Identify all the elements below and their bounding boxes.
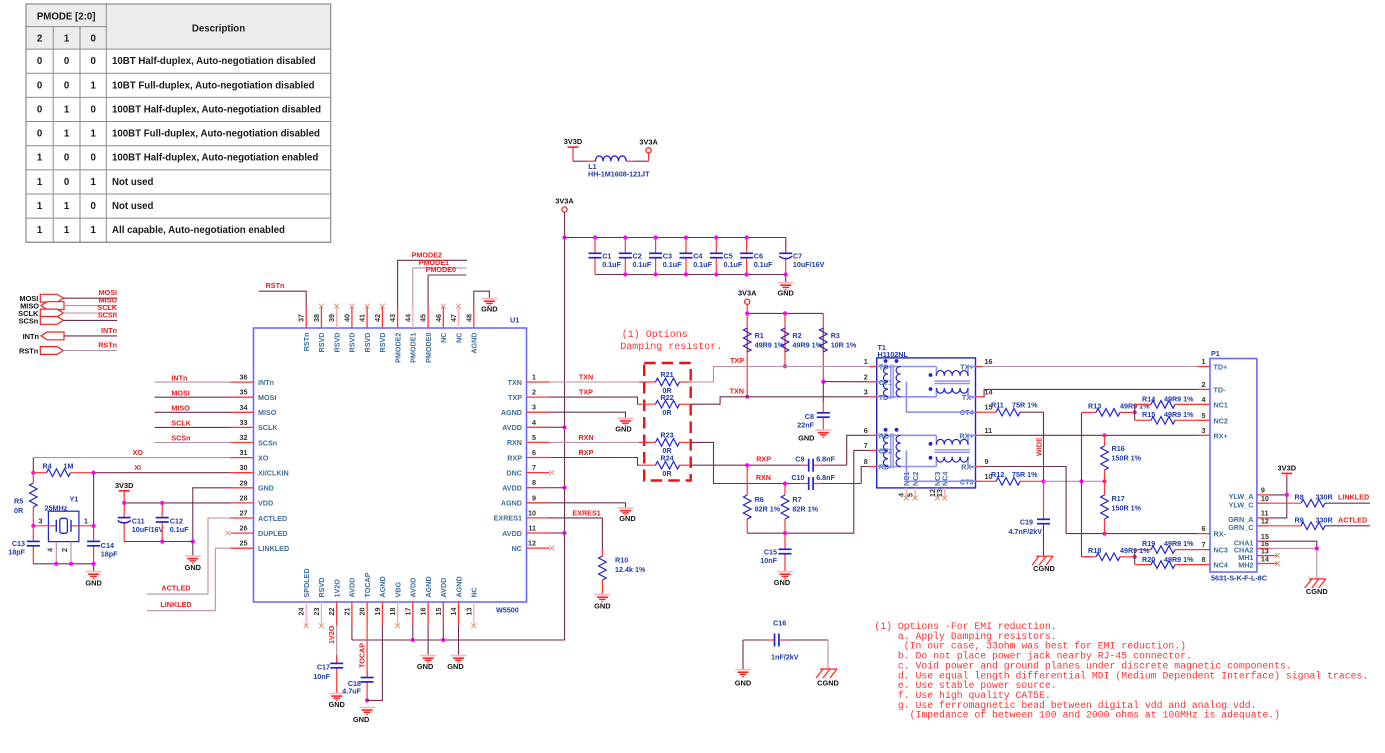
wire PMODE0: [428, 275, 466, 307]
P1 pin 15 CHA1: [1234, 532, 1269, 547]
svg-text:R7: R7: [792, 495, 801, 504]
svg-text:LINKLED: LINKLED: [1338, 493, 1369, 502]
wire P1 pin15 CHA1: [1269, 541, 1317, 548]
P1 pin 16 CHA2: [1234, 539, 1269, 554]
op-amp U1 W5500 body: [254, 316, 527, 615]
svg-text:14: 14: [985, 387, 993, 396]
resistor R22 0R: [639, 400, 691, 408]
wire net RX+ (T1 to P1): [983, 434, 1199, 436]
wire RSTn to U1 pin37: [259, 291, 307, 306]
junction GND/C11C12 bus: [191, 539, 195, 543]
ground (C17): [328, 694, 345, 709]
junction RXP/R6: [745, 463, 749, 467]
svg-text:1: 1: [90, 80, 96, 91]
svg-text:0: 0: [64, 153, 69, 164]
svg-text:DNC: DNC: [506, 468, 522, 477]
svg-text:150R 1%: 150R 1%: [1112, 503, 1142, 512]
resistor R23 0R: [639, 439, 691, 447]
U1 pin 24 SPDLED: [297, 568, 311, 628]
svg-text:0: 0: [64, 80, 69, 91]
svg-text:R23: R23: [660, 430, 673, 439]
svg-text:10: 10: [1261, 494, 1269, 503]
T1 pin 7 CT2: [864, 441, 893, 456]
wire net RXP (R24 to C9): [691, 464, 801, 466]
port MOSI: [19, 288, 117, 303]
svg-text:P1: P1: [1211, 349, 1220, 358]
junction C4 bottom: [684, 272, 688, 276]
U1 pin 29 GND: [231, 478, 274, 492]
resistor R4 1M: [33, 461, 93, 476]
svg-text:R18: R18: [1088, 546, 1101, 555]
U1 pin 26 DUPLED: [231, 524, 288, 538]
svg-text:0: 0: [90, 34, 95, 45]
svg-text:16: 16: [985, 357, 993, 366]
svg-text:R21: R21: [660, 370, 673, 379]
svg-text:AGND: AGND: [424, 576, 433, 597]
no-connect U1 pin26: [225, 531, 230, 536]
port MISO: [20, 296, 117, 311]
svg-text:(1) Options: (1) Options: [622, 329, 688, 341]
U1 pin 34 MISO: [231, 403, 277, 417]
junction C2 top: [623, 235, 627, 239]
svg-text:R2: R2: [792, 331, 801, 340]
svg-text:3V3D: 3V3D: [564, 137, 583, 146]
PMODE truth table: [26, 4, 331, 242]
wire U1 TXN to R21: [550, 381, 639, 383]
U1 pin 21 AVDD: [342, 578, 356, 626]
resistor R1 49R9 1%: [743, 313, 784, 396]
svg-text:NC: NC: [470, 587, 479, 597]
U1 pin 48 AGND: [464, 307, 478, 354]
svg-text:INTn: INTn: [258, 378, 274, 387]
svg-text:LINKLED: LINKLED: [258, 544, 289, 553]
svg-text:30: 30: [240, 463, 248, 472]
svg-text:TXN: TXN: [579, 373, 593, 382]
junction 3V3A rail: [562, 235, 566, 239]
svg-text:2: 2: [864, 372, 868, 381]
capacitor C13 18pF: [8, 526, 40, 564]
junction RX-/R17: [1102, 532, 1106, 536]
T1 pin 10 CT3: [960, 472, 993, 487]
svg-text:AGND: AGND: [501, 499, 522, 508]
svg-text:0.1uF: 0.1uF: [754, 260, 773, 269]
svg-text:GND: GND: [615, 424, 632, 433]
port SCLK: [18, 303, 118, 318]
U1 pin 32 SCSn: [231, 433, 278, 447]
wire net INTn to U1 pin 36: [155, 381, 231, 383]
wire net SCLK to U1 pin 33: [155, 426, 231, 428]
wire C10 to T1 RD-: [861, 467, 870, 484]
svg-text:CGND: CGND: [817, 679, 839, 688]
svg-text:10nF: 10nF: [760, 556, 777, 565]
svg-text:NC3: NC3: [1214, 546, 1228, 555]
svg-text:ACTLED: ACTLED: [161, 584, 190, 593]
svg-text:INTn: INTn: [171, 373, 187, 382]
svg-text:10: 10: [528, 508, 536, 517]
svg-text:AGND: AGND: [470, 333, 479, 354]
svg-text:5631-S-K-F-L-8C: 5631-S-K-F-L-8C: [1211, 574, 1267, 583]
dashed option box (damping resistors): [644, 363, 691, 481]
svg-text:SCSn: SCSn: [19, 316, 39, 325]
svg-text:22: 22: [327, 608, 336, 616]
svg-text:TD+: TD+: [1214, 363, 1228, 372]
svg-text:R16: R16: [1112, 444, 1125, 453]
ground (crystal): [85, 572, 102, 588]
svg-text:XI: XI: [134, 463, 141, 472]
wire R3 to C8: [822, 382, 824, 402]
resistor R16 150R 1%: [1101, 435, 1142, 481]
svg-text:GND: GND: [798, 433, 815, 442]
U1 pin 7 DNC: [506, 463, 549, 477]
svg-text:Damping resistor.: Damping resistor.: [620, 341, 722, 353]
svg-text:R10: R10: [615, 556, 628, 565]
resistor R15 49R9 1%: [1135, 417, 1198, 425]
capacitor C16 1nF/2kV: [743, 634, 828, 647]
wire C9 to T1 RD+: [847, 435, 870, 465]
capacitor C8 22nF: [817, 402, 830, 430]
capacitor C12: [156, 503, 189, 542]
svg-text:W5500: W5500: [496, 606, 519, 615]
svg-text:C17: C17: [317, 662, 330, 671]
T1 pin 12 NC3: [928, 472, 942, 501]
svg-text:RXN: RXN: [578, 433, 593, 442]
T1 pin 14 TX-: [962, 387, 993, 402]
svg-text:RSVD: RSVD: [317, 578, 326, 598]
junction C7 bottom: [784, 272, 788, 276]
svg-text:20: 20: [358, 608, 367, 616]
junction 3V3A rail: [562, 425, 566, 429]
U1 pin 30 XI/CLKIN: [231, 463, 289, 477]
svg-text:0: 0: [37, 104, 42, 115]
svg-text:14: 14: [449, 608, 458, 616]
svg-text:TXP: TXP: [508, 393, 522, 402]
wire net MISO to U1 pin 34: [155, 411, 231, 413]
svg-text:SCLK: SCLK: [171, 419, 191, 428]
svg-text:SCSn: SCSn: [98, 310, 117, 319]
svg-text:HH-1M1608-121JT: HH-1M1608-121JT: [588, 169, 650, 178]
ground (U1 pin48): [481, 299, 498, 314]
svg-text:R4: R4: [43, 461, 52, 470]
svg-text:7: 7: [864, 441, 868, 450]
svg-text:SCLK: SCLK: [258, 423, 278, 432]
junction C2 bottom: [623, 272, 627, 276]
svg-text:R17: R17: [1112, 494, 1125, 503]
svg-text:NC4: NC4: [941, 472, 950, 486]
U1 pin 15 AVDD: [434, 578, 448, 626]
junction C15/R7: [783, 531, 787, 535]
P1 pin 8 NC4: [1198, 555, 1228, 570]
svg-text:AVDD: AVDD: [502, 484, 522, 493]
svg-text:3V3A: 3V3A: [639, 137, 658, 146]
svg-text:0.1uF: 0.1uF: [170, 525, 189, 534]
svg-text:330R: 330R: [1316, 493, 1334, 502]
svg-text:R11: R11: [991, 401, 1004, 410]
svg-text:6.8nF: 6.8nF: [816, 455, 835, 464]
svg-text:C16: C16: [773, 619, 786, 628]
capacitor C17 10nF: [330, 655, 343, 693]
P1 pin 6 RX-: [1198, 524, 1226, 539]
port INTn: [23, 326, 118, 341]
svg-text:0: 0: [64, 56, 69, 67]
svg-text:12: 12: [1261, 517, 1269, 526]
wire PMODE1: [413, 268, 467, 307]
resistor R7 82R 1%: [781, 484, 818, 534]
svg-text:1M: 1M: [64, 461, 74, 470]
resistor R6 82R 1%: [743, 465, 780, 533]
T1 pin 15 CT4: [960, 403, 993, 418]
svg-text:MISO: MISO: [258, 408, 277, 417]
svg-text:48: 48: [464, 314, 473, 322]
junction crystal gnd bus: [92, 562, 96, 566]
junction C6 top: [745, 235, 749, 239]
svg-text:11: 11: [985, 426, 993, 435]
svg-text:GND: GND: [447, 662, 464, 671]
svg-text:17: 17: [403, 608, 412, 616]
svg-text:23: 23: [312, 608, 321, 616]
junction C5 bottom: [714, 272, 718, 276]
power 3V3D (P1): [1278, 463, 1297, 478]
svg-text:32: 32: [240, 433, 248, 442]
svg-text:46: 46: [434, 314, 443, 322]
svg-text:1: 1: [84, 517, 88, 526]
svg-text:TOCAP: TOCAP: [357, 643, 366, 668]
svg-text:82R 1%: 82R 1%: [792, 505, 818, 514]
svg-text:GND: GND: [735, 679, 752, 688]
svg-text:PMODE [2:0]: PMODE [2:0]: [37, 12, 96, 23]
svg-text:RXN: RXN: [756, 473, 771, 482]
U1 pin 14 AGND: [449, 576, 463, 625]
svg-text:GND: GND: [185, 563, 202, 572]
svg-text:12.4k 1%: 12.4k 1%: [615, 565, 646, 574]
svg-text:AVDD: AVDD: [439, 578, 448, 598]
wire net TXN (R22 to T1 TD-): [691, 397, 870, 404]
svg-text:RSVD: RSVD: [317, 333, 326, 353]
svg-text:49R9 1%: 49R9 1%: [755, 341, 785, 350]
capacitor C3 0.1uF: [649, 238, 682, 275]
resistor R17 150R 1%: [1101, 481, 1142, 533]
svg-text:100BT Half-duplex, Auto-negoti: 100BT Half-duplex, Auto-negotiation enab…: [112, 153, 318, 164]
ground (C15): [774, 572, 793, 587]
ground (R10): [594, 595, 611, 611]
T1 pin 16 TX+: [960, 357, 992, 372]
svg-text:DUPLED: DUPLED: [258, 529, 288, 538]
junction crystal gnd bus: [69, 562, 73, 566]
svg-text:GND: GND: [258, 484, 274, 493]
capacitor C15 10nF: [779, 533, 792, 571]
wire 1V2O to C17: [336, 626, 338, 664]
svg-text:GND: GND: [417, 662, 434, 671]
svg-text:MOSI: MOSI: [258, 393, 276, 402]
P1 pin 11 GRN_A: [1228, 509, 1269, 524]
U1 pin 27 ACTLED: [231, 509, 288, 523]
svg-text:TXP: TXP: [579, 388, 593, 397]
wire R19/R20 tie: [1134, 550, 1136, 565]
svg-text:8: 8: [1202, 555, 1206, 564]
svg-text:8: 8: [532, 478, 536, 487]
svg-text:TD-: TD-: [1214, 385, 1227, 394]
resistor R24 0R: [639, 461, 691, 469]
T1 pin 1 TD+: [864, 357, 893, 372]
resistor R14 49R9 1%: [1135, 401, 1198, 409]
svg-text:49R9 1%: 49R9 1%: [1164, 555, 1194, 564]
svg-text:0: 0: [90, 153, 95, 164]
P1 pin 7 NC3: [1198, 540, 1228, 555]
junction CT3 net: [1079, 479, 1083, 483]
svg-text:RSVD: RSVD: [333, 333, 342, 353]
port SCSn: [19, 310, 118, 325]
svg-text:150R 1%: 150R 1%: [1112, 453, 1142, 462]
svg-text:R3: R3: [831, 331, 840, 340]
junction 3V3A rail: [562, 486, 566, 490]
T1 pin 4 NC1: [897, 472, 911, 501]
wire Y1 pin1 rail: [93, 473, 95, 526]
ground (cap bank): [777, 283, 794, 298]
svg-text:All capable, Auto-negotiation: All capable, Auto-negotiation enabled: [112, 225, 285, 236]
svg-text:49R9 1%: 49R9 1%: [1164, 539, 1194, 548]
T1 pin 2 CT1: [864, 372, 893, 387]
svg-text:14: 14: [1261, 554, 1269, 563]
svg-text:100BT Full-duplex, Auto-negoti: 100BT Full-duplex, Auto-negotiation disa…: [112, 129, 320, 140]
ground (U1 pin14): [447, 656, 466, 671]
wire C16 left to GND: [742, 640, 744, 669]
U1 pin 37 RSTn: [297, 307, 311, 352]
chassis ground (CHA): [1305, 579, 1329, 596]
svg-text:1: 1: [37, 153, 43, 164]
wire net CT3 extension: [1044, 480, 1105, 482]
junction XI/C14 rail: [92, 471, 96, 475]
chassis ground (C16): [816, 669, 840, 688]
svg-text:R5: R5: [14, 497, 23, 506]
wire U1 pin9 AGND: [550, 503, 626, 508]
svg-text:1V2O: 1V2O: [327, 625, 336, 644]
wire PMODE2: [398, 260, 467, 306]
resistor R13 49R9 1%: [1082, 409, 1135, 417]
svg-text:RSTn: RSTn: [19, 347, 39, 356]
svg-text:INTn: INTn: [101, 326, 117, 335]
junction VDD bus: [122, 501, 126, 505]
P1 pin 4 NC1: [1198, 395, 1228, 410]
capacitor C10 6.8nF: [791, 473, 861, 490]
junction XI/R4/R5: [31, 471, 35, 475]
svg-text:PMODE2: PMODE2: [393, 333, 402, 363]
svg-text:21: 21: [342, 608, 351, 616]
svg-text:25MHz: 25MHz: [45, 503, 68, 512]
svg-text:3V3A: 3V3A: [555, 197, 574, 206]
svg-text:8: 8: [864, 457, 868, 466]
wire P1 pin9 to 3V3D rail: [1269, 494, 1287, 496]
svg-text:C9: C9: [795, 455, 804, 464]
note EMI reduction: [874, 621, 1368, 721]
svg-text:1: 1: [1202, 357, 1206, 366]
svg-text:44: 44: [403, 314, 412, 322]
svg-text:PMODE0: PMODE0: [424, 333, 433, 363]
svg-text:2: 2: [37, 34, 42, 45]
junction R2/TXP: [783, 364, 787, 368]
junction R3/CT1: [821, 380, 825, 384]
svg-text:100BT Half-duplex, Auto-negoti: 100BT Half-duplex, Auto-negotiation disa…: [112, 104, 321, 115]
svg-text:NC: NC: [454, 333, 463, 343]
svg-text:45: 45: [419, 314, 428, 322]
svg-text:R8: R8: [1295, 493, 1304, 502]
T1 pin 5 NC2: [906, 472, 920, 501]
svg-text:3: 3: [39, 517, 43, 526]
U1 pin 19 AGND: [373, 576, 387, 625]
svg-text:ACTLED: ACTLED: [258, 514, 287, 523]
U1 pin 1 TXN: [508, 373, 550, 387]
junction R1/TXN: [745, 395, 749, 399]
svg-text:1: 1: [64, 34, 70, 45]
capacitor C6 0.1uF: [740, 238, 773, 275]
ground (U1 pin16): [417, 656, 436, 671]
wire C11 C12 gnd bus: [124, 541, 193, 543]
svg-text:GND: GND: [85, 579, 102, 588]
wire net XI: [94, 472, 231, 474]
U1 pin 28 VDD: [231, 493, 274, 507]
U1 pin 5 RXN: [507, 433, 550, 447]
chassis ground (C19): [1032, 556, 1056, 573]
svg-text:RXN: RXN: [507, 438, 522, 447]
P1 pin 14 MH2: [1238, 554, 1280, 569]
junction C4 top: [684, 235, 688, 239]
svg-text:NC2: NC2: [911, 472, 920, 486]
transformer T1 RX winding: [877, 428, 976, 481]
T1 pin 6 RD+: [864, 426, 894, 441]
U1 pin 45 PMODE0: [419, 307, 433, 363]
T1 pin 3 TD-: [864, 387, 892, 402]
svg-text:0: 0: [90, 56, 95, 67]
capacitor C4 0.1uF: [680, 238, 713, 275]
U1 pin 13 NC: [464, 587, 478, 628]
svg-text:1: 1: [90, 129, 96, 140]
wire C16 right to CGND: [827, 640, 829, 669]
power 3V3A (R1-R3): [738, 289, 757, 305]
svg-text:RSTn: RSTn: [98, 341, 117, 350]
svg-text:AGND: AGND: [378, 576, 387, 597]
svg-text:RSVD: RSVD: [363, 333, 372, 353]
P1 pin 9 YLW_A: [1229, 486, 1269, 501]
svg-text:49R9 1%: 49R9 1%: [1164, 410, 1194, 419]
svg-text:CGND: CGND: [1306, 587, 1328, 596]
svg-text:RSVD: RSVD: [348, 333, 357, 353]
svg-text:1: 1: [37, 201, 43, 212]
U1 pin 41 RSVD: [358, 304, 372, 353]
wire Y1 pin4: [55, 542, 57, 564]
svg-text:43: 43: [388, 314, 397, 322]
capacitor C9 6.8nF: [795, 455, 846, 472]
U1 pin 44 PMODE1: [403, 307, 417, 363]
svg-text:5: 5: [532, 433, 536, 442]
svg-text:TXP: TXP: [730, 356, 744, 365]
svg-text:36: 36: [240, 373, 248, 382]
svg-text:0: 0: [90, 104, 95, 115]
svg-text:0R: 0R: [662, 469, 672, 478]
svg-text:R14: R14: [1142, 395, 1155, 404]
capacitor C14 18pF: [87, 526, 118, 564]
wire cap bank top bus: [565, 238, 786, 254]
svg-text:4.7nF/2kV: 4.7nF/2kV: [1008, 527, 1042, 536]
svg-text:1: 1: [64, 129, 70, 140]
svg-text:6: 6: [532, 448, 536, 457]
svg-text:82R 1%: 82R 1%: [755, 505, 781, 514]
svg-text:R15: R15: [1142, 410, 1155, 419]
svg-text:9: 9: [532, 493, 536, 502]
svg-text:1: 1: [90, 177, 96, 188]
svg-text:PMODE1: PMODE1: [409, 333, 418, 363]
svg-text:0.1uF: 0.1uF: [663, 260, 682, 269]
svg-text:EXRES1: EXRES1: [572, 508, 600, 517]
svg-text:1: 1: [64, 201, 70, 212]
svg-text:R22: R22: [660, 393, 673, 402]
